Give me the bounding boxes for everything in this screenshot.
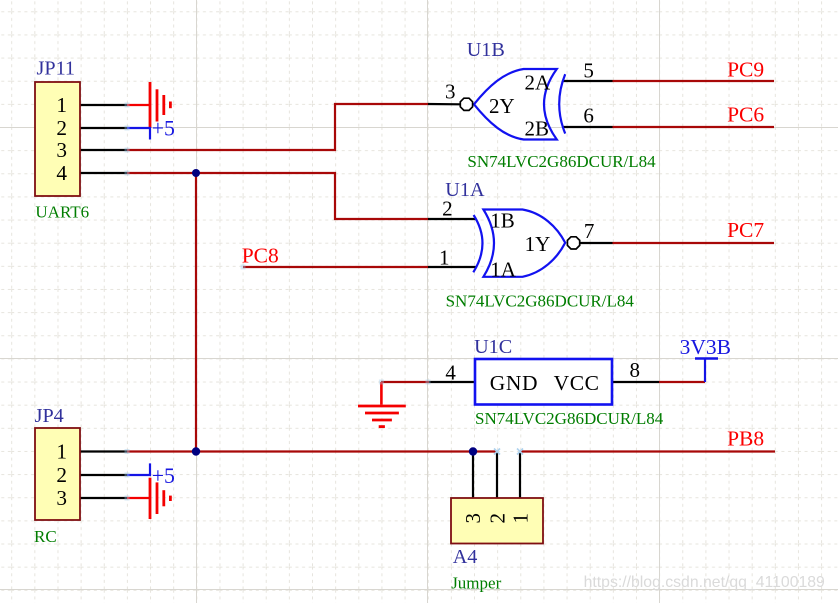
svg-text:8: 8	[630, 358, 641, 382]
svg-text:2Y: 2Y	[489, 94, 515, 118]
svg-text:SN74LVC2G86DCUR/L84: SN74LVC2G86DCUR/L84	[475, 409, 664, 428]
svg-text:2: 2	[56, 463, 67, 487]
svg-text:https://blog.csdn.net/qq_41100: https://blog.csdn.net/qq_41100189	[584, 574, 825, 591]
svg-text:PC9: PC9	[727, 57, 764, 81]
svg-text:+5: +5	[152, 117, 175, 141]
svg-text:2B: 2B	[525, 117, 550, 141]
svg-text:4: 4	[445, 360, 456, 384]
svg-text:+5: +5	[152, 464, 175, 488]
svg-text:1Y: 1Y	[525, 232, 551, 256]
svg-text:U1B: U1B	[467, 39, 505, 61]
svg-text:1: 1	[509, 513, 533, 524]
svg-text:3: 3	[445, 80, 456, 104]
svg-text:5: 5	[583, 58, 594, 82]
svg-text:A4: A4	[453, 546, 478, 568]
svg-text:4: 4	[56, 161, 67, 185]
svg-text:PC7: PC7	[727, 218, 764, 242]
svg-text:2: 2	[485, 513, 509, 524]
svg-text:GND: GND	[490, 371, 538, 395]
svg-text:PB8: PB8	[727, 427, 764, 451]
svg-text:JP4: JP4	[35, 405, 64, 427]
svg-text:2: 2	[442, 197, 453, 221]
svg-text:3: 3	[56, 138, 67, 162]
svg-text:1A: 1A	[490, 258, 517, 282]
svg-text:1: 1	[56, 440, 67, 464]
svg-text:6: 6	[583, 103, 594, 127]
svg-text:UART6: UART6	[35, 202, 89, 221]
svg-text:PC6: PC6	[727, 102, 764, 126]
svg-text:1: 1	[439, 246, 450, 270]
svg-text:VCC: VCC	[554, 371, 600, 395]
svg-text:PC8: PC8	[242, 243, 279, 267]
svg-text:SN74LVC2G86DCUR/L84: SN74LVC2G86DCUR/L84	[467, 152, 656, 171]
svg-text:Jumper: Jumper	[451, 573, 501, 592]
svg-text:JP11: JP11	[37, 58, 76, 80]
svg-text:1B: 1B	[490, 208, 515, 232]
svg-text:2: 2	[56, 116, 67, 140]
svg-text:SN74LVC2G86DCUR/L84: SN74LVC2G86DCUR/L84	[446, 292, 635, 311]
svg-text:3V3B: 3V3B	[680, 335, 731, 359]
svg-text:2A: 2A	[525, 70, 552, 94]
svg-text:3: 3	[56, 486, 67, 510]
svg-text:RC: RC	[34, 527, 57, 546]
svg-text:1: 1	[56, 93, 67, 117]
svg-text:7: 7	[584, 219, 595, 243]
svg-text:3: 3	[461, 513, 485, 524]
svg-text:U1C: U1C	[474, 336, 512, 358]
